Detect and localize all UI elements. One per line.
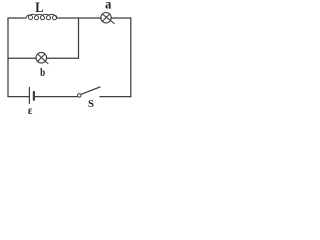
svg-text:ε: ε	[28, 103, 32, 117]
svg-text:b: b	[40, 65, 45, 79]
svg-text:S: S	[88, 98, 94, 110]
svg-text:L: L	[35, 0, 43, 16]
svg-text:a: a	[105, 0, 111, 12]
